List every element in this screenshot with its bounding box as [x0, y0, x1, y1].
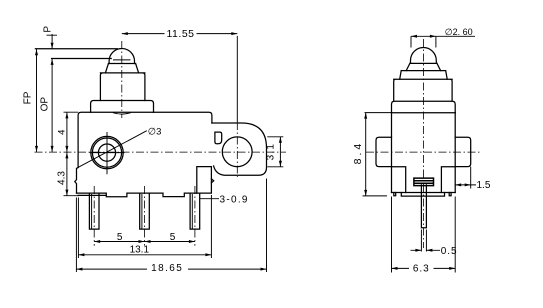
mounting ear: [212, 123, 267, 175]
lever bottom edge: [52, 58, 112, 60]
svg-text:3.1: 3.1: [266, 143, 277, 161]
pin 1 seat line: [78, 194, 106, 196]
body outline top: [78, 112, 212, 167]
svg-text:∅2. 60: ∅2. 60: [445, 27, 473, 37]
svg-text:P: P: [43, 26, 54, 33]
dimension 13.1: [78, 195, 211, 258]
front horizontal centerline: [366, 151, 480, 153]
bellows step: [100, 73, 144, 101]
dimension line 5-5: [94, 241, 195, 243]
dimension D2.60: [411, 36, 475, 47]
plunger dome (side): [109, 49, 134, 64]
base flange: [91, 101, 154, 113]
upper block front: [394, 79, 452, 101]
pin 3 centerline: [194, 186, 196, 246]
pin 1 centerline: [93, 186, 95, 246]
pin 2: [140, 193, 150, 229]
step front: [400, 71, 448, 80]
terminal slot: [414, 178, 434, 186]
svg-text:13.1: 13.1: [130, 244, 150, 255]
svg-text:∅3: ∅3: [148, 127, 162, 138]
dimension 18.65: [76, 179, 266, 273]
body front top line: [392, 112, 456, 114]
ear hole circle: [222, 137, 252, 167]
left wing: [376, 137, 392, 166]
svg-text:11.55: 11.55: [167, 28, 195, 40]
svg-text:3-0.9: 3-0.9: [220, 194, 249, 205]
button hole inner circle: [98, 144, 115, 161]
svg-text:1.5: 1.5: [477, 180, 491, 191]
right wing: [455, 137, 471, 166]
body lower-left edge with notch: [75, 168, 78, 194]
dimension 6.3: [392, 197, 456, 273]
center pin front: [421, 185, 426, 228]
dome front: [411, 48, 437, 64]
svg-text:4.3: 4.3: [57, 171, 68, 185]
svg-text:FP: FP: [23, 91, 34, 104]
base seam left: [392, 167, 406, 193]
dimension 3.1: [267, 137, 283, 167]
body top seam dip: [113, 113, 131, 114]
body front bottom: [392, 192, 456, 194]
flange front: [392, 101, 456, 113]
main horizontal centerline: [35, 151, 287, 153]
dimension 3-0.9: [200, 198, 220, 200]
lever top edge: [35, 48, 117, 50]
plunger centerline: [121, 41, 123, 118]
svg-text:6.3: 6.3: [413, 263, 430, 274]
dimension 8.4: [363, 113, 392, 196]
lug latch tab: [211, 179, 213, 183]
button hole outer circle: [91, 136, 123, 168]
base seam right: [441, 167, 455, 193]
ear hole vertical extension line: [236, 36, 238, 122]
pin 3: [190, 193, 200, 229]
svg-text:OP: OP: [39, 97, 50, 112]
dome center mark: [113, 59, 131, 61]
svg-text:18.65: 18.65: [151, 263, 183, 274]
body bottom contour: [77, 193, 197, 197]
ear D-cutout: [215, 132, 222, 144]
dimension leader D3: [79, 131, 147, 168]
dimension 1.5: [455, 167, 476, 189]
bottom-right lug: [197, 167, 212, 194]
svg-text:4: 4: [57, 130, 68, 135]
dimension 0.5: [411, 230, 441, 252]
svg-text:8.4: 8.4: [352, 141, 364, 165]
body front sides: [392, 113, 456, 193]
front vertical centerline: [423, 39, 425, 248]
pin 1: [89, 193, 99, 229]
bottom plate: [394, 193, 451, 197]
ear hole vertical centerline: [236, 122, 238, 177]
plunger collar: [105, 64, 138, 73]
pin 2 centerline: [144, 186, 146, 246]
button hole cross horizontal: [90, 152, 125, 154]
button hole cross vertical: [106, 132, 108, 174]
button hole middle circle: [92, 138, 121, 167]
collar front: [406, 63, 440, 70]
